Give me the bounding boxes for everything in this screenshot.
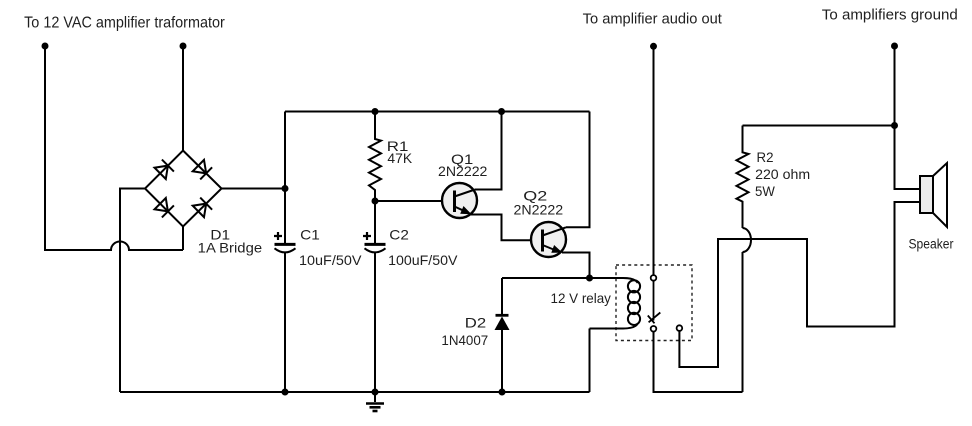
resistor R1	[369, 112, 381, 202]
node: junction rail / C2 / ground	[372, 389, 379, 396]
resistor R2	[737, 126, 752, 393]
capacitor C1	[275, 244, 296, 252]
C1 polarity plus	[274, 232, 282, 240]
svg-text:220 ohm: 220 ohm	[755, 167, 810, 182]
node: junction rail / D2	[499, 389, 506, 396]
wire: Q1 collector to rail	[475, 112, 502, 190]
node: junction rail / C1	[282, 389, 289, 396]
svg-text:R2: R2	[757, 150, 774, 165]
wire: bridge positive output to C1 rail	[222, 188, 286, 190]
wire: junction to speaker top terminal	[895, 126, 921, 190]
ground symbol	[366, 392, 384, 411]
svg-text:100uF/50V: 100uF/50V	[388, 253, 457, 268]
svg-text:1N4007: 1N4007	[441, 333, 488, 348]
wire: C1 vertical	[284, 112, 286, 393]
wire: C2 vertical	[374, 201, 376, 392]
diode D1a (left corner to top corner)	[155, 160, 174, 179]
svg-text:C2: C2	[389, 227, 409, 242]
wire: bridge negative lead to ground rail	[120, 189, 145, 393]
wire: ground lead down	[894, 46, 896, 126]
svg-text:1A Bridge: 1A Bridge	[198, 241, 262, 256]
node: right AC terminal	[180, 43, 187, 50]
svg-text:Q2: Q2	[523, 189, 547, 204]
svg-text:47K: 47K	[387, 151, 412, 166]
diode D2 (flyback)	[495, 278, 510, 392]
wire: audio-out lead down to relay common	[653, 46, 655, 275]
speaker	[920, 163, 947, 227]
wire: R2 top to ground rail junction	[743, 125, 895, 127]
diode D1d (bottom corner to right corner)	[193, 198, 212, 218]
svg-text:5W: 5W	[755, 184, 775, 199]
wire: bridge bottom corner stub	[182, 227, 184, 251]
node: junction bridge+ / C1	[282, 185, 289, 192]
node: junction ground / R2 / speaker	[891, 122, 898, 129]
svg-text:To 12 VAC amplifier traformat: To 12 VAC amplifier traformator	[24, 15, 225, 32]
transistor Q2	[531, 222, 566, 257]
node: left AC terminal	[42, 43, 49, 50]
svg-text:To amplifiers ground: To amplifiers ground	[822, 7, 958, 23]
relay common bottom contact	[651, 326, 657, 332]
svg-text:C1: C1	[300, 227, 320, 242]
svg-text:2N2222: 2N2222	[438, 164, 487, 179]
diode D1b (top corner to right corner)	[193, 160, 212, 180]
relay K1 dashed enclosure	[616, 265, 692, 341]
relay moving arm with arrow	[648, 281, 661, 324]
node: junction R1 / Q1 base / C2	[372, 198, 379, 205]
node: junction Q2 emitter / coil	[586, 275, 593, 282]
wire: Q2 emitter down to relay coil node	[562, 253, 590, 279]
node: audio out terminal	[650, 43, 657, 50]
wire: main positive rail (top)	[285, 111, 590, 113]
wire: relay common to R2 bottom	[654, 332, 743, 392]
node: amplifiers ground terminal	[891, 43, 898, 50]
C2 polarity plus	[363, 232, 371, 240]
wire: left AC lead down and across with hop over negative lead	[45, 46, 183, 250]
node: junction rail / R1	[372, 108, 379, 115]
wire: Q2 collector to rail	[566, 112, 590, 228]
relay common contact	[651, 275, 657, 281]
capacitor C2	[365, 244, 386, 252]
wire: relay NO contact to speaker hot	[679, 202, 920, 367]
wire: Q1 base wire	[375, 200, 454, 202]
relay coil	[590, 278, 641, 392]
svg-text:Speaker: Speaker	[909, 237, 954, 253]
svg-text:12 V relay: 12 V relay	[551, 291, 612, 306]
relay NO contact	[677, 325, 683, 331]
wire: Q1 emitter to Q2 base	[471, 215, 542, 241]
diode D1c (left corner to bottom corner)	[155, 198, 174, 217]
svg-text:D2: D2	[465, 316, 486, 331]
svg-text:10uF/50V: 10uF/50V	[299, 253, 362, 268]
node: junction rail / Q1 collector	[498, 108, 505, 115]
ground rail (bottom)	[120, 391, 590, 393]
wire: right AC lead down to bridge top	[182, 46, 184, 151]
svg-text:2N2222: 2N2222	[514, 203, 564, 218]
bridge rectifier D1 diamond	[145, 151, 222, 227]
wire: coil top feed from D2	[502, 277, 590, 279]
transistor Q1	[442, 183, 477, 218]
svg-text:To amplifier audio out: To amplifier audio out	[583, 11, 722, 27]
